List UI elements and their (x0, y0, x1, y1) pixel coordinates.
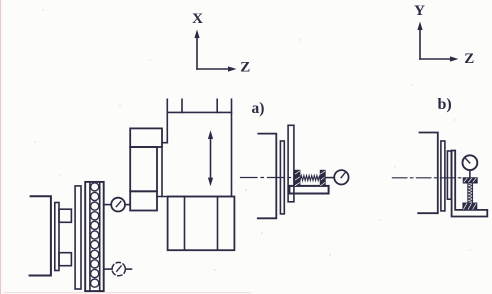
column top tick 2 (216, 99, 218, 112)
base inner line 1 (184, 197, 186, 251)
column top edge (167, 111, 231, 113)
section a dial needle (341, 172, 345, 177)
machine base sub-block (168, 197, 235, 251)
scan artifact: pink bottom edge (4, 292, 250, 294)
dial indicator G1 stub left (104, 204, 112, 206)
ball 6 (91, 231, 99, 239)
section a base bar (289, 186, 328, 194)
section b column (zigzag) (468, 183, 473, 203)
column left jog (162, 142, 167, 144)
headstock bracket (left assembly) (30, 196, 51, 275)
dial indicator G2 stub left (104, 268, 112, 270)
Z axis horizontal arrow (right) (420, 58, 454, 60)
ball 10 (91, 269, 99, 277)
vertical travel double arrow (210, 135, 212, 181)
section a plate 2 (288, 125, 294, 202)
dial indicator G2 needle (117, 266, 121, 271)
section b base block (hatched) (463, 203, 477, 210)
svg-text:Y: Y (414, 3, 425, 19)
scan specks (34, 9, 470, 271)
Y axis vertical arrow (419, 25, 421, 59)
section b plate 1 (441, 141, 445, 211)
section a measuring rod (zigzag) (300, 176, 320, 181)
section b bracket (418, 133, 438, 214)
section b stand L-bracket (452, 151, 488, 217)
ballscrew strip outer housing (85, 182, 104, 291)
column left edge lower (161, 147, 163, 197)
section b centreline dash-dot (392, 177, 461, 179)
ball 2 (91, 192, 99, 200)
spindle nose block bottom (59, 253, 71, 266)
ball 9 (91, 260, 99, 268)
section a right clamp (hatched) (320, 170, 325, 186)
column left edge upper (166, 99, 168, 142)
svg-text:b): b) (438, 96, 452, 113)
faceplate tall plate (75, 186, 81, 289)
ball 8 (91, 250, 99, 258)
column bottom edge (157, 196, 232, 198)
base inner line 2 (217, 197, 219, 251)
Z axis horizontal arrow (left) (197, 68, 231, 70)
dial indicator G1 needle (116, 201, 121, 206)
section a dial indicator body (334, 170, 348, 184)
svg-text:Z: Z (240, 60, 250, 76)
section a rod stub to dial (325, 177, 334, 179)
section a plate 1 (280, 141, 284, 214)
section a bracket (258, 134, 277, 219)
ballscrew strip inner rail right (99, 182, 101, 291)
svg-text:Z: Z (464, 51, 474, 67)
dial indicator G1 body (111, 198, 125, 212)
ball 1 (91, 183, 99, 191)
svg-text:a): a) (252, 100, 265, 117)
spindle flange plate (55, 203, 59, 271)
carriage bottom section (130, 191, 157, 210)
section b dial stem (469, 170, 471, 178)
section b table (hatched) (463, 178, 477, 183)
dial indicator G1 stub right (125, 204, 130, 206)
section a left clamp (hatched) (295, 170, 300, 186)
scan artifact: pink left edge (0, 0, 2, 294)
ball 5 (91, 221, 99, 229)
section b dial gauge body (463, 155, 478, 170)
section b plate 2 (447, 151, 451, 199)
dial indicator G2 dashed body (112, 262, 125, 275)
ball 4 (91, 212, 99, 220)
ball 3 (91, 202, 99, 210)
section a centreline dash-dot (241, 177, 298, 179)
X axis vertical arrow (196, 33, 198, 69)
ball 7 (91, 241, 99, 249)
carriage top step (130, 128, 162, 147)
dial indicator G2 stub right (125, 268, 131, 270)
svg-text:X: X (192, 11, 203, 27)
section b dial needle (465, 158, 470, 163)
ball 11 (91, 279, 99, 287)
ballscrew strip inner rail left (89, 182, 91, 291)
column top tick 1 (181, 99, 183, 112)
carriage middle body (130, 147, 157, 191)
column right edge (231, 99, 233, 196)
spindle nose block top (59, 209, 71, 222)
